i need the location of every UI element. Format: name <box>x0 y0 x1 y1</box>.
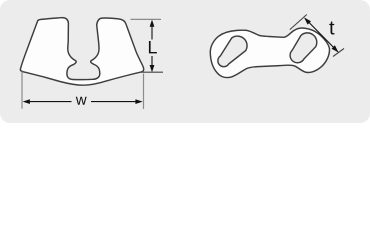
label L <box>149 41 157 53</box>
label w <box>76 97 87 105</box>
dimension w left extension line <box>21 72 23 109</box>
cam cleat body, front view with twin horns and keyhole slot <box>20 18 143 86</box>
link plate left oval hole <box>218 36 247 67</box>
dimension L upper stem <box>151 26 153 40</box>
dimension w left arrowhead <box>23 99 30 104</box>
dimension w right arrowhead <box>135 99 142 104</box>
dimension L down arrowhead <box>150 65 155 72</box>
dimension t upper arrowhead <box>304 18 311 25</box>
dimension w left stem <box>29 101 72 103</box>
dimension t lower extension line <box>333 49 344 57</box>
dimension t stem <box>305 18 338 52</box>
dimension t lower arrowhead <box>332 45 339 52</box>
background panel <box>0 0 370 123</box>
dimension L up arrowhead <box>150 20 155 27</box>
label t <box>329 21 334 34</box>
dimension w right stem <box>91 101 136 103</box>
dimension t upper extension line <box>290 15 307 30</box>
dimension w right extension line <box>143 74 145 110</box>
link plate right oval hole <box>290 33 317 63</box>
dimension L top extension line <box>131 18 162 20</box>
link plate body, tilted side view <box>210 28 329 78</box>
dimension L bottom extension line <box>142 71 164 73</box>
dimension L lower stem <box>151 56 153 66</box>
